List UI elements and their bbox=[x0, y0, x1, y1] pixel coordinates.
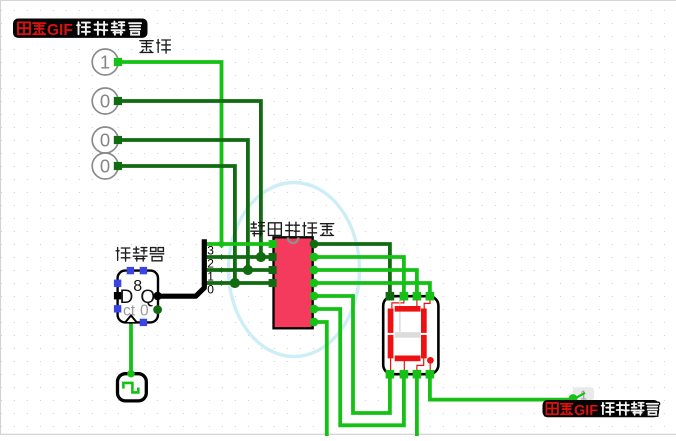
wire splitter row2 to chip pin2 bbox=[205, 255, 269, 259]
chip right pin 3 bbox=[310, 266, 319, 275]
counter bottom pin bbox=[140, 319, 147, 326]
junction row0/probe4 bbox=[230, 278, 240, 288]
wire splitter row3 to chip pin1 (bright) bbox=[205, 242, 269, 246]
chip right pin 5 bbox=[310, 292, 319, 301]
counter left pin 1 bbox=[114, 280, 121, 287]
wire chip pinF to display bottom pin2 bbox=[316, 309, 404, 425]
wire chip pinB to display top pin2 bbox=[316, 257, 404, 293]
connector pin4 to b bbox=[424, 300, 430, 309]
wire splitter row1 to chip pin3 bbox=[205, 268, 269, 272]
counter top pin 1 bbox=[127, 267, 134, 274]
display DS1 body bbox=[383, 296, 438, 374]
svg-text:0: 0 bbox=[100, 155, 110, 176]
label 探针 bbox=[140, 41, 153, 53]
connector d to bottom pin2 bbox=[403, 361, 405, 371]
counter top pin 2 bbox=[140, 267, 147, 274]
probe P2 value 0 bbox=[92, 88, 118, 114]
connector pin3 to a bbox=[416, 300, 418, 306]
wire display bottom pin4 to right probe bbox=[430, 377, 573, 400]
display bottom pin 4 bbox=[426, 370, 435, 379]
counter U1 body bbox=[118, 271, 158, 323]
chip right pin 6 bbox=[310, 305, 319, 314]
display bottom pin 3 bbox=[413, 370, 422, 379]
segment b bbox=[421, 309, 427, 333]
hidden probe pin stub bbox=[574, 393, 585, 399]
wire chip pinD to display top pin4 bbox=[316, 283, 430, 293]
label 数码管驱动 bbox=[251, 222, 265, 236]
svg-text:ct: ct bbox=[123, 303, 136, 320]
probe P4 value 0 bbox=[92, 153, 118, 179]
connector pin2 to f bbox=[392, 300, 404, 308]
segment a bbox=[395, 306, 421, 312]
watermark bottom-right bbox=[543, 400, 660, 419]
waypoint diamond row0 bbox=[219, 280, 225, 286]
wire probe2 to row2 junction bbox=[121, 101, 261, 255]
wire probe3 to row1 junction bbox=[121, 140, 248, 268]
counter clock triangle bbox=[126, 315, 137, 322]
watermark top-left bbox=[13, 19, 148, 40]
wire clock to counter bbox=[129, 322, 133, 372]
junction at right probe bbox=[569, 394, 578, 403]
svg-text:GIF: GIF bbox=[574, 403, 598, 419]
svg-text:0: 0 bbox=[207, 283, 214, 297]
junction diamond row3/probe1 bbox=[217, 240, 226, 249]
probe P1 value 1 bbox=[92, 49, 118, 75]
connector c to bottom pin3 bbox=[417, 358, 424, 371]
wire probe4 to row0 junction bbox=[121, 166, 235, 281]
waypoint diamond row2 bbox=[219, 254, 225, 260]
probe P3 value 0 bbox=[92, 127, 118, 153]
segment g (off) bbox=[395, 332, 421, 338]
wire chip pinG off bottom edge bbox=[316, 322, 327, 436]
counter left pin 2 bbox=[114, 305, 121, 312]
connector g (gray) bbox=[399, 300, 401, 332]
segment d bbox=[395, 356, 421, 362]
label 计数器 bbox=[116, 248, 130, 261]
display bottom pin 2 bbox=[400, 370, 409, 379]
connector dp to bottom pin4 bbox=[429, 364, 431, 371]
hidden probe body bbox=[573, 387, 595, 400]
segment c bbox=[421, 335, 427, 359]
wire probe1 to splitter row3 bbox=[121, 62, 222, 242]
chip right pin 4 bbox=[310, 279, 319, 288]
svg-text:1: 1 bbox=[207, 270, 214, 284]
counter Q output pin bbox=[153, 292, 161, 300]
display bottom pin 1 bbox=[386, 370, 395, 379]
clock waveform bbox=[123, 383, 138, 393]
svg-text:3: 3 bbox=[207, 244, 214, 258]
chip right pin 2 bbox=[310, 253, 319, 262]
svg-text:0: 0 bbox=[100, 90, 110, 111]
junction row1/probe3 bbox=[243, 265, 253, 275]
display top pin 1 bbox=[386, 292, 395, 301]
wire chip pinE to display bottom pin1 bbox=[316, 296, 390, 413]
segment e bbox=[388, 335, 394, 359]
chip left pin 4 bbox=[269, 279, 277, 287]
svg-text:GIF: GIF bbox=[47, 22, 73, 39]
wire chip pinA (dark) to display top pin1 bbox=[316, 244, 390, 293]
counter carry pin bbox=[153, 305, 162, 314]
clock top pin bbox=[127, 370, 135, 378]
chip left pin 3 bbox=[269, 266, 277, 274]
counter left pin D (black) bbox=[114, 292, 121, 299]
clock source body bbox=[118, 374, 147, 401]
display top pin 2 bbox=[400, 292, 409, 301]
chip notch bbox=[288, 238, 298, 244]
chip left pin 1 bbox=[269, 240, 277, 248]
wire chip pinC to display top pin3 bbox=[316, 270, 417, 293]
chip left pin 2 bbox=[269, 253, 277, 261]
decimal point bbox=[427, 357, 434, 364]
svg-text:0: 0 bbox=[100, 129, 110, 150]
chip right pin 1 bbox=[310, 240, 319, 249]
selection ellipse around driver bbox=[229, 183, 360, 357]
svg-text:2: 2 bbox=[207, 257, 214, 271]
driver chip U2 body bbox=[274, 237, 313, 328]
connector e to bottom pin1 bbox=[390, 358, 392, 371]
svg-text:1: 1 bbox=[100, 51, 110, 72]
junction row2/probe2 bbox=[256, 252, 266, 262]
wire display bottom pin3 off bottom edge bbox=[415, 377, 419, 436]
bus counter Q to splitter bbox=[158, 239, 205, 296]
chip right pin 7 bbox=[310, 318, 319, 327]
svg-text:0: 0 bbox=[140, 303, 149, 320]
waypoint diamond row1 bbox=[219, 267, 225, 273]
display top pin 4 bbox=[426, 292, 435, 301]
segment f bbox=[388, 309, 394, 333]
wire splitter row0 to chip pin4 bbox=[205, 281, 269, 285]
display top pin 3 bbox=[413, 292, 422, 301]
